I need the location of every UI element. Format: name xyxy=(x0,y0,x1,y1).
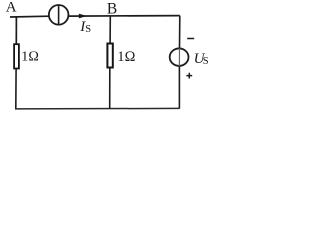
svg-text:A: A xyxy=(6,0,17,16)
voltage source internal wire through xyxy=(178,48,180,66)
plus polarity mark xyxy=(186,73,192,79)
resistor R1 body xyxy=(14,44,19,68)
current source IS circle xyxy=(49,5,69,25)
minus polarity mark xyxy=(187,38,194,40)
voltage source U_S circle xyxy=(170,48,189,65)
svg-text:1Ω: 1Ω xyxy=(117,49,135,65)
current source internal bar xyxy=(58,5,60,24)
wire bottom xyxy=(15,107,180,110)
svg-text:S: S xyxy=(203,56,209,67)
wire middle branch vertical lower xyxy=(109,67,111,108)
wire right branch vertical upper xyxy=(179,16,181,49)
current direction arrow xyxy=(79,14,87,19)
svg-text:1Ω: 1Ω xyxy=(21,50,39,65)
wire right branch vertical lower xyxy=(178,66,180,108)
resistor R2 body xyxy=(107,44,112,68)
wire left branch vertical upper xyxy=(15,17,17,44)
wire middle branch vertical upper (node B down) xyxy=(109,16,111,43)
wire left branch vertical lower xyxy=(15,69,17,109)
svg-text:S: S xyxy=(85,24,91,35)
wire top-left segment A to current source xyxy=(10,15,49,18)
wire current source to node B to top-right corner xyxy=(68,15,180,18)
